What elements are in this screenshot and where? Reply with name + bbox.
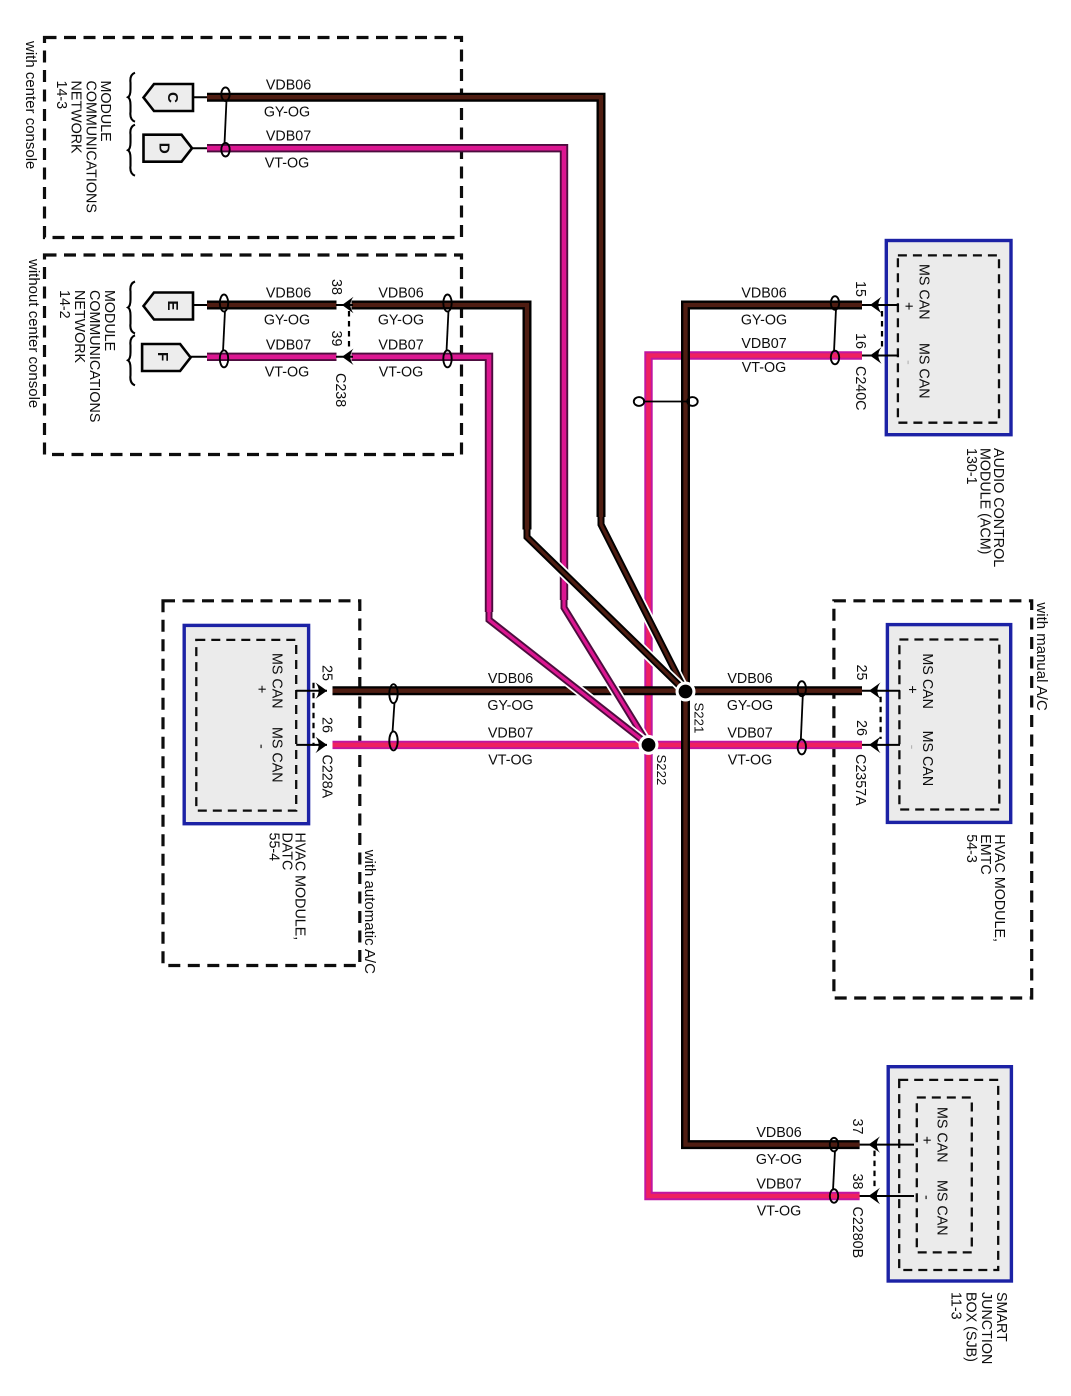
svg-text:VDB06: VDB06 — [266, 78, 311, 94]
ACM pin 15 lead — [862, 297, 899, 313]
wire VDB06 GY-OG from connector C via corner down — [207, 97, 601, 524]
mid-right GY-OG label — [727, 698, 773, 714]
svg-text:VDB06: VDB06 — [756, 1125, 801, 1141]
pin 15 label — [852, 281, 868, 297]
ACM VT-OG label — [742, 360, 786, 376]
EMTC pin 25 lead — [862, 683, 900, 699]
twisted pair symbol left of HVAC EMTC — [798, 681, 806, 754]
svg-text:with center console: with center console — [22, 40, 39, 169]
EMTC MS CAN + label — [904, 653, 935, 709]
SJB VT-OG label — [757, 1204, 801, 1220]
brace for connector C — [128, 73, 135, 122]
wire VDB06 GY-OG from connector E (pigtail) — [193, 304, 210, 306]
svg-text:VDB07: VDB07 — [741, 336, 786, 352]
C238 right GY-OG label — [378, 313, 424, 329]
svg-text:VDB06: VDB06 — [727, 671, 772, 687]
brace for connector D — [128, 125, 135, 176]
connector C2357A dashed link — [879, 697, 881, 739]
twisted pair symbol on C/D wires — [221, 87, 229, 156]
mid-right VDB06 label — [727, 671, 772, 687]
label: with manual A/C — [1033, 601, 1050, 711]
twisted pair symbol on ACM pin wires — [831, 296, 839, 364]
svg-text:C2280B: C2280B — [849, 1207, 865, 1259]
svg-text:C238: C238 — [332, 373, 348, 407]
svg-text:C228A: C228A — [319, 755, 335, 799]
label C2357A — [852, 754, 868, 806]
EMTC pin 26 lead — [862, 737, 900, 753]
label S222 — [654, 755, 669, 786]
DATC MS CAN + label — [253, 653, 284, 709]
svg-text:without center console: without center console — [25, 258, 42, 408]
label S221 — [692, 703, 707, 734]
DATC pin 26 lead — [296, 737, 327, 753]
label C238 — [332, 373, 348, 407]
wire VDB06 diagonal from E-branch corner to splice S221 — [527, 530, 686, 692]
box2 VT-OG label — [265, 364, 309, 380]
box1 VDB06 label — [266, 78, 311, 94]
label C2280B — [849, 1207, 865, 1259]
DATC MS CAN - label — [253, 727, 284, 783]
wire VDB06 diagonal from C-branch corner to splice S221 — [601, 517, 686, 692]
label: HVAC MODULE DATC 55-4 — [266, 833, 308, 941]
pin 25 label — [319, 665, 335, 681]
svg-text:GY-OG: GY-OG — [378, 313, 424, 329]
svg-text:C2357A: C2357A — [852, 754, 868, 806]
svg-text:GY-OG: GY-OG — [264, 313, 310, 329]
box1 VT-OG label — [265, 156, 309, 172]
label: MODULE COMMUNICATIONS NETWORK 14-3 — [53, 81, 113, 213]
svg-text:C240C: C240C — [852, 366, 868, 411]
option box: with center console (module communications network 14-3) — [45, 38, 462, 238]
label C240C — [852, 366, 868, 411]
twisted pair symbol right of C238 — [443, 295, 451, 368]
svg-text:VT-OG: VT-OG — [265, 156, 309, 172]
wire VDB07 VT-OG connector F to C238 — [207, 353, 337, 361]
mid-left VDB07 label — [488, 725, 533, 741]
svg-text:VDB06: VDB06 — [378, 286, 423, 302]
SJB pin 38 lead — [860, 1188, 914, 1204]
module box: audio control module ACM — [886, 241, 1011, 435]
svg-text:38: 38 — [328, 279, 344, 295]
svg-text:GY-OG: GY-OG — [727, 698, 773, 714]
svg-text:VDB07: VDB07 — [488, 725, 533, 741]
connector C — [144, 84, 194, 111]
option box: with automatic A/C (HVAC DATC) — [163, 601, 360, 966]
svg-text:S221: S221 — [692, 703, 707, 734]
label: with center console — [22, 40, 39, 169]
label: MODULE COMMUNICATIONS NETWORK 14-2 — [56, 290, 117, 422]
connector E — [144, 293, 194, 320]
module box: smart junction box SJB — [888, 1067, 1011, 1281]
svg-text:38: 38 — [849, 1174, 865, 1190]
pin 25 label — [853, 665, 869, 681]
DATC pin 25 lead — [296, 683, 327, 699]
pin 38 label — [849, 1174, 865, 1190]
twisted pair symbol on E/F wires — [220, 295, 228, 368]
pin 16 label — [852, 333, 868, 349]
svg-text:16: 16 — [852, 333, 868, 349]
box2 GY-OG label — [264, 313, 310, 329]
connector C238 arrows and dashed link — [336, 297, 354, 365]
svg-text:VT-OG: VT-OG — [265, 364, 309, 380]
svg-text:VT-OG: VT-OG — [488, 752, 532, 768]
brace for connector E — [128, 282, 135, 334]
svg-text:26: 26 — [319, 717, 335, 733]
box2 VDB07 label — [266, 337, 311, 353]
ACM VDB07 label — [741, 336, 786, 352]
label: without center console — [25, 258, 42, 408]
module box: HVAC module EMTC — [887, 625, 1010, 823]
mid-right VDB07 label — [727, 725, 772, 741]
svg-text:GY-OG: GY-OG — [756, 1152, 802, 1168]
C238 right VDB06 label — [378, 286, 423, 302]
svg-text:GY-OG: GY-OG — [741, 313, 787, 329]
svg-text:D: D — [156, 143, 173, 154]
twisted pair symbol on HVAC DATC pin wires — [389, 684, 397, 750]
label C228A — [319, 755, 335, 799]
pin 26 label — [319, 717, 335, 733]
C238 right VDB07 label — [378, 337, 423, 353]
ACM GY-OG label — [741, 313, 787, 329]
svg-text:with manual A/C: with manual A/C — [1033, 601, 1050, 711]
mid-left VT-OG label — [488, 752, 532, 768]
mid-left VDB06 label — [488, 671, 533, 687]
wire VDB06 GY-OG vertical trunk: ACM pin15 down through S221 to SJB pin 37 — [686, 305, 863, 1145]
wire VDB06 GY-OG horizontal: HVAC DATC pin 25 to HVAC EMTC pin 25 through S221 — [333, 686, 863, 695]
SJB MS CAN + label — [918, 1107, 949, 1163]
brace for connector F — [128, 335, 135, 385]
module box: HVAC module DATC — [184, 625, 308, 823]
pin 39 label — [328, 331, 344, 347]
wire VDB07 VT-OG from connector D via corner down — [207, 148, 564, 607]
SJB GY-OG label — [756, 1152, 802, 1168]
C238 right VT-OG label — [379, 364, 423, 380]
label: AUDIO CONTROL MODULE (ACM) 130-1 — [963, 448, 1006, 567]
SJB VDB07 label — [756, 1177, 801, 1193]
pin 38 label — [328, 279, 344, 295]
ACM pin 16 lead — [862, 347, 899, 363]
twisted pair symbol on SJB pin wires — [830, 1138, 838, 1203]
wire VDB07 VT-OG vertical trunk: ACM pin16 down through S222 to SJB pin 38 — [649, 356, 863, 1197]
option box: without center console (module communications network 14-2) — [45, 255, 462, 455]
ACM MS CAN - label — [900, 343, 931, 399]
connector C2280B dashed link — [873, 1151, 875, 1190]
option box: with manual A/C (HVAC EMTC) — [834, 601, 1032, 998]
box1 GY-OG label — [264, 105, 310, 121]
svg-text:GY-OG: GY-OG — [264, 105, 310, 121]
wire VDB06 GY-OG connector E to C238 — [207, 301, 337, 310]
wire VDB06 GY-OG from C238 via corner down — [352, 305, 528, 537]
svg-text:with automatic A/C: with automatic A/C — [361, 849, 378, 974]
wire VDB06 GY-OG from connector C (pigtail) — [193, 96, 210, 98]
svg-text:VDB07: VDB07 — [756, 1177, 801, 1193]
SJB pin 37 lead — [860, 1136, 914, 1152]
wire VDB07 VT-OG horizontal: HVAC DATC pin 26 to HVAC EMTC pin 26 through S222 — [333, 741, 863, 749]
ACM VDB06 label — [741, 286, 786, 302]
twisted pair symbol on vertical trunk wires — [634, 397, 698, 406]
svg-text:VT-OG: VT-OG — [757, 1204, 801, 1220]
svg-text:VDB06: VDB06 — [488, 671, 533, 687]
wire VDB07 VT-OG from C238 via corner down — [352, 357, 490, 620]
svg-text:VDB07: VDB07 — [266, 129, 311, 145]
connector C240C dashed link — [881, 311, 883, 350]
label: HVAC MODULE EMTC 54-3 — [963, 834, 1007, 942]
svg-text:VDB07: VDB07 — [378, 337, 423, 353]
svg-text:39: 39 — [328, 331, 344, 347]
wire VDB07 diagonal from F-branch corner to splice S222 — [489, 612, 649, 745]
svg-text:37: 37 — [849, 1119, 865, 1135]
pin 37 label — [849, 1119, 865, 1135]
svg-text:VDB06: VDB06 — [266, 286, 311, 302]
wire VDB07 VT-OG from connector F (pigtail) — [191, 356, 210, 358]
svg-text:26: 26 — [853, 720, 869, 736]
svg-text:VT-OG: VT-OG — [742, 360, 786, 376]
splice S222 junction dot — [639, 735, 659, 755]
svg-text:E: E — [164, 301, 181, 311]
svg-text:C: C — [164, 92, 181, 103]
ACM MS CAN + label — [900, 264, 931, 320]
label: with automatic A/C — [361, 849, 378, 974]
svg-text:VT-OG: VT-OG — [379, 364, 423, 380]
svg-text:15: 15 — [852, 281, 868, 297]
splice S221 junction dot — [676, 682, 696, 702]
connector C228A dashed link — [312, 683, 314, 746]
connector F — [142, 344, 191, 371]
SJB MS CAN - label — [918, 1180, 949, 1236]
SJB VDB06 label — [756, 1125, 801, 1141]
connector D — [144, 135, 193, 162]
svg-text:VDB07: VDB07 — [727, 725, 772, 741]
EMTC MS CAN - label — [904, 731, 935, 787]
svg-text:VDB07: VDB07 — [266, 337, 311, 353]
svg-text:S222: S222 — [654, 755, 669, 786]
pin 26 label — [853, 720, 869, 736]
svg-text:GY-OG: GY-OG — [487, 698, 533, 714]
label: SMART JUNCTION BOX (SJB) 11-3 — [947, 1292, 1009, 1364]
svg-text:VDB06: VDB06 — [741, 286, 786, 302]
wire VDB07 diagonal from D-branch corner to splice S222 — [564, 600, 649, 745]
wire VDB07 VT-OG from connector D to splice S222 (pigtail) — [192, 147, 210, 149]
svg-text:25: 25 — [319, 665, 335, 681]
mid-right VT-OG label — [728, 752, 772, 768]
box2 VDB06 label — [266, 286, 311, 302]
svg-text:VT-OG: VT-OG — [728, 752, 772, 768]
svg-text:F: F — [154, 352, 171, 361]
svg-text:25: 25 — [853, 665, 869, 681]
box1 VDB07 label — [266, 129, 311, 145]
mid-left GY-OG label — [487, 698, 533, 714]
